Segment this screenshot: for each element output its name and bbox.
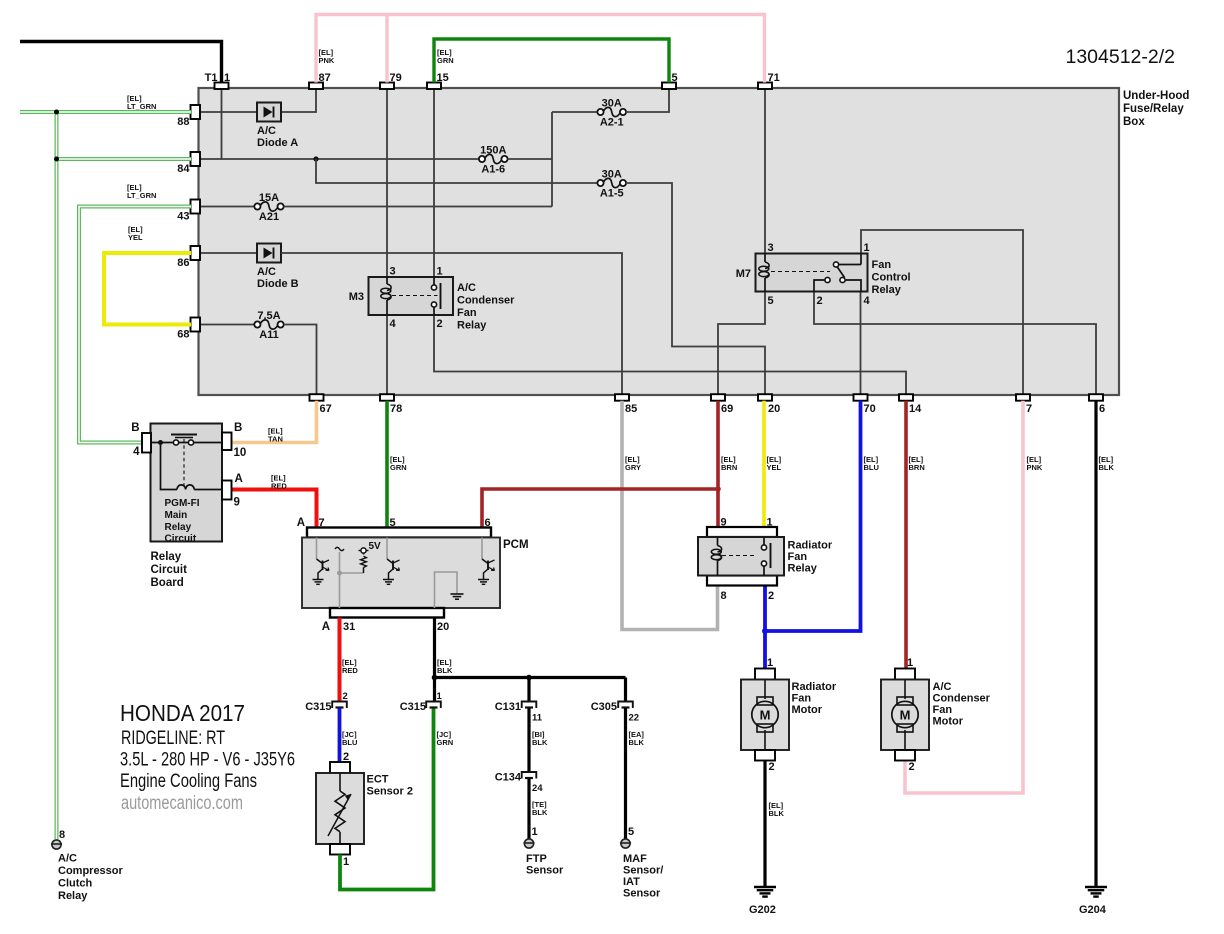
svg-text:BLK: BLK	[629, 738, 645, 747]
wire brown pin 69 to radiator fan relay pin 9	[716, 401, 720, 527]
fuse A2-1 30A	[597, 98, 626, 129]
svg-text:A21: A21	[259, 211, 279, 223]
wire gray pin 85 to radiator fan relay pin 8	[622, 401, 718, 630]
pin 85	[615, 394, 637, 415]
wire pin84 line to fuse A1-6	[199, 158, 481, 160]
wire yellow pin 20 to radiator fan relay pin 1	[762, 401, 766, 527]
svg-text:1: 1	[767, 517, 773, 529]
pin 43	[177, 200, 200, 223]
wire pin15 to M3 pin1	[433, 89, 435, 278]
svg-text:A2-1: A2-1	[600, 117, 624, 129]
svg-text:5: 5	[390, 517, 396, 529]
svg-text:88: 88	[177, 116, 189, 128]
svg-text:LT_GRN: LT_GRN	[127, 191, 156, 200]
label [EL] RED (pin 31)	[342, 658, 358, 675]
label [JC] GRN	[437, 730, 454, 747]
wire junction down to fuse A1-5	[316, 159, 598, 183]
wire riser x552 (A2-1 to A21)	[551, 112, 553, 207]
svg-text:A: A	[235, 473, 243, 485]
svg-text:PNK: PNK	[319, 56, 335, 65]
wire pin68 to fuse A11	[199, 324, 254, 326]
svg-text:15: 15	[437, 72, 449, 84]
wire black C134 to FTP sensor	[527, 779, 530, 840]
wire A11 to pin 67	[284, 325, 317, 395]
svg-text:Sensor: Sensor	[526, 865, 564, 877]
svg-text:A/C: A/C	[933, 681, 952, 693]
svg-text:43: 43	[177, 211, 189, 223]
FTP Sensor terminal	[523, 826, 564, 877]
svg-text:B: B	[131, 422, 139, 434]
svg-text:Circuit: Circuit	[165, 534, 197, 545]
svg-text:Condenser: Condenser	[457, 295, 515, 307]
Radiator Fan Motor	[741, 657, 837, 773]
svg-text:22: 22	[629, 713, 640, 724]
svg-text:A11: A11	[259, 329, 279, 341]
svg-text:Sensor 2: Sensor 2	[367, 786, 413, 798]
svg-text:3.5L - 280 HP - V6 - J35Y6: 3.5L - 280 HP - V6 - J35Y6	[120, 750, 295, 771]
svg-text:Fan: Fan	[933, 704, 953, 716]
svg-text:IAT: IAT	[623, 876, 640, 888]
svg-text:ECT: ECT	[367, 774, 389, 786]
svg-text:87: 87	[319, 72, 331, 84]
svg-text:6: 6	[485, 517, 491, 529]
wire blue pin 70 to radiator fan motor	[765, 401, 861, 669]
wire black pin 6 to G204	[1094, 401, 1097, 887]
wire green ECT to C315 pin 1	[340, 708, 434, 890]
label [EL] GRN	[437, 48, 454, 65]
title block	[120, 700, 295, 814]
svg-text:Relay: Relay	[151, 551, 182, 563]
wire pin71 to M7 pin3	[764, 89, 766, 255]
wire pin86 to diode B	[199, 252, 257, 254]
wire pink 87-79-71	[316, 15, 765, 83]
svg-text:Relay: Relay	[872, 284, 902, 296]
svg-text:BLK: BLK	[1099, 463, 1115, 472]
svg-text:1: 1	[437, 691, 443, 702]
A/C Diode B	[257, 244, 299, 291]
wire M7 pin2 to pin 6	[814, 291, 1096, 395]
wire pin79 to M3 pin3	[386, 89, 388, 278]
pin 20	[758, 394, 780, 415]
svg-text:G202: G202	[749, 904, 776, 916]
pin 78	[380, 394, 402, 415]
svg-text:9: 9	[234, 497, 240, 509]
svg-text:Engine Cooling Fans: Engine Cooling Fans	[120, 771, 257, 792]
svg-text:GRY: GRY	[625, 463, 641, 472]
svg-text:A/C: A/C	[58, 853, 77, 865]
svg-text:150A: 150A	[480, 145, 506, 157]
svg-text:HONDA 2017: HONDA 2017	[120, 700, 245, 726]
svg-text:20: 20	[437, 621, 449, 633]
label [EL] TAN	[268, 427, 283, 444]
svg-text:FTP: FTP	[526, 853, 547, 865]
node junction black at C131	[526, 675, 532, 681]
svg-text:20: 20	[768, 403, 780, 415]
svg-text:3: 3	[768, 242, 774, 254]
label [EL] BLU	[864, 455, 879, 472]
label [JC] BLU	[342, 730, 357, 747]
svg-text:Relay: Relay	[165, 522, 192, 533]
svg-text:M: M	[760, 708, 771, 723]
svg-text:BLK: BLK	[769, 809, 785, 818]
svg-text:A/C: A/C	[257, 266, 276, 278]
pin 7	[1016, 394, 1032, 415]
label [EL] BLK (pin 20)	[437, 658, 453, 675]
svg-text:1304512-2/2: 1304512-2/2	[1065, 46, 1175, 68]
svg-text:M: M	[900, 708, 911, 723]
svg-text:84: 84	[177, 163, 190, 175]
wire M7 pin5 to pin 69	[718, 291, 765, 395]
fuse A21 15A	[254, 192, 283, 223]
svg-text:1: 1	[532, 826, 538, 838]
Under-Hood Fuse/Relay Box	[199, 88, 1190, 395]
ground G202	[749, 887, 776, 916]
svg-text:10: 10	[234, 447, 247, 459]
connector C315 (ECT)	[305, 691, 348, 713]
svg-text:78: 78	[390, 403, 402, 415]
svg-text:86: 86	[177, 257, 189, 269]
svg-text:MAF: MAF	[623, 853, 647, 865]
svg-text:Control: Control	[872, 272, 911, 284]
pin 67	[310, 394, 332, 415]
label [TE] BLK	[532, 800, 548, 817]
A/C Compressor Clutch Relay terminal	[51, 829, 124, 902]
node junction blue	[762, 628, 768, 634]
wire pink pin 7 to A/C condenser fan motor pin 2	[905, 401, 1023, 793]
svg-text:Relay: Relay	[788, 563, 818, 575]
svg-text:Relay: Relay	[457, 320, 487, 332]
wire lt-green vertical to A/C compressor clutch relay	[55, 112, 59, 839]
node junction brown	[715, 486, 721, 492]
svg-text:Sensor/: Sensor/	[623, 865, 663, 877]
svg-text:5V: 5V	[369, 541, 382, 552]
svg-text:Fan: Fan	[457, 307, 477, 319]
svg-text:Diode B: Diode B	[257, 278, 299, 290]
pin 84	[177, 152, 200, 175]
svg-text:C305: C305	[591, 701, 617, 713]
pin 5	[662, 72, 678, 89]
pin 6	[1089, 394, 1105, 415]
svg-text:4: 4	[133, 446, 140, 458]
node junction black at PCM20	[432, 675, 438, 681]
svg-text:automecanico.com: automecanico.com	[121, 793, 243, 814]
svg-text:PGM-FI: PGM-FI	[165, 498, 200, 509]
svg-text:14: 14	[909, 403, 922, 415]
svg-text:BLU: BLU	[342, 738, 357, 747]
wire riser top to fuse A2-1	[552, 111, 598, 113]
connector C131	[495, 701, 543, 724]
svg-text:BRN: BRN	[721, 463, 737, 472]
node junction lt-green at 84 line	[54, 157, 59, 162]
svg-text:RED: RED	[271, 482, 287, 491]
label [BI] BLK	[532, 730, 548, 747]
pin 68	[177, 318, 200, 341]
wire A21 to riser x552	[284, 206, 552, 208]
svg-text:A1-5: A1-5	[600, 188, 624, 200]
wire M3 pin4 to pin 78	[386, 314, 388, 395]
svg-text:LT_GRN: LT_GRN	[127, 102, 156, 111]
svg-text:5: 5	[672, 72, 678, 84]
label [EL] PNK (pin 7)	[1027, 455, 1043, 472]
pin 88	[177, 105, 200, 128]
wire green pin 78 to PCM 5	[385, 401, 389, 528]
wire blue C315 to ECT sensor	[338, 708, 342, 762]
svg-text:A/C: A/C	[457, 282, 476, 294]
svg-text:Radiator: Radiator	[788, 540, 833, 552]
label [EL] RED	[271, 474, 287, 491]
wire black C305 to MAF sensor	[624, 708, 627, 839]
wire red relay board A9 to PCM A7	[231, 490, 317, 529]
svg-text:11: 11	[532, 713, 543, 724]
wire A1-6 to riser x552	[508, 158, 553, 160]
svg-text:B: B	[234, 422, 242, 434]
svg-text:BLK: BLK	[437, 666, 453, 675]
svg-text:A: A	[322, 621, 330, 633]
svg-text:C315: C315	[305, 701, 331, 713]
svg-text:Motor: Motor	[792, 704, 823, 716]
svg-text:M3: M3	[349, 291, 364, 303]
label [EL] PNK	[319, 48, 335, 65]
svg-text:BLK: BLK	[532, 808, 548, 817]
ground G204	[1079, 887, 1107, 916]
node junction 84 line	[313, 156, 318, 161]
svg-text:2: 2	[437, 318, 443, 330]
svg-text:8: 8	[721, 590, 727, 602]
pin T1/1	[205, 72, 230, 89]
svg-text:BLU: BLU	[864, 463, 879, 472]
Relay Circuit Board	[131, 422, 246, 589]
wire battery black to T1	[20, 42, 222, 83]
svg-text:GRN: GRN	[437, 56, 454, 65]
connector C315 (PCM20)	[400, 691, 443, 713]
svg-text:C315: C315	[400, 701, 426, 713]
PCM	[297, 517, 529, 633]
svg-text:6: 6	[1099, 403, 1105, 415]
svg-text:85: 85	[625, 403, 637, 415]
wire black radiator fan motor to G202	[763, 761, 766, 888]
svg-text:Fan: Fan	[872, 259, 892, 271]
wire T1 down to 84 line	[221, 89, 223, 159]
sheet number	[1065, 46, 1175, 68]
wire lt-green pin 43 to relay circuit board	[79, 207, 191, 443]
svg-text:70: 70	[864, 403, 876, 415]
svg-text:9: 9	[721, 517, 727, 529]
svg-text:79: 79	[390, 72, 402, 84]
ECT Sensor 2	[316, 751, 413, 868]
wire pin88 to diode A to pin 87	[199, 89, 316, 112]
fuse A1-5 30A	[597, 169, 626, 200]
svg-text:7: 7	[319, 517, 325, 529]
wire black C131 to C134	[527, 708, 530, 773]
svg-text:1: 1	[437, 266, 443, 278]
svg-text:GRN: GRN	[390, 463, 407, 472]
wire A2-1 to pin 5	[626, 89, 669, 112]
svg-text:5: 5	[768, 295, 774, 307]
svg-text:C134: C134	[495, 772, 522, 784]
Radiator Fan Relay	[698, 517, 833, 603]
svg-text:RIDGELINE: RT: RIDGELINE: RT	[121, 728, 225, 749]
svg-text:T1: T1	[205, 72, 218, 84]
svg-text:Compressor: Compressor	[58, 865, 124, 877]
svg-text:Sensor: Sensor	[623, 888, 661, 900]
label [EL] BRN (pin 14)	[909, 455, 925, 472]
label [EL] BLK (motor)	[769, 801, 785, 818]
svg-text:Under-Hood: Under-Hood	[1123, 90, 1189, 102]
label [EL] YEL (pin 20)	[767, 455, 782, 472]
svg-text:Circuit: Circuit	[151, 564, 188, 576]
wire A1-5 to pin 20	[626, 183, 765, 395]
wire M3 pin2 to pin 14	[434, 314, 906, 395]
svg-text:2: 2	[817, 295, 823, 307]
wire green 15-5	[434, 39, 669, 83]
label [EL] LT_GRN (pin 88)	[127, 94, 156, 111]
svg-text:Condenser: Condenser	[933, 693, 991, 705]
svg-text:Fuse/Relay: Fuse/Relay	[1123, 103, 1184, 115]
svg-text:Relay: Relay	[58, 890, 88, 902]
svg-text:1: 1	[864, 242, 870, 254]
svg-text:Clutch: Clutch	[58, 878, 93, 890]
wire black branch to C131 and C305	[435, 678, 626, 703]
pin 79	[380, 72, 402, 89]
svg-text:Board: Board	[151, 577, 184, 589]
svg-text:5: 5	[628, 826, 634, 838]
wire diode B to pin 85	[281, 253, 622, 395]
relay M3 A/C Condenser Fan Relay	[349, 266, 515, 332]
svg-text:A1-6: A1-6	[481, 164, 505, 176]
svg-text:71: 71	[768, 72, 780, 84]
wire M7 pin4 to pin 70	[860, 291, 862, 395]
svg-text:TAN: TAN	[268, 435, 283, 444]
svg-text:2: 2	[343, 691, 348, 702]
svg-text:31: 31	[343, 621, 355, 633]
svg-text:1: 1	[224, 72, 230, 84]
A/C Condenser Fan Motor	[881, 657, 991, 773]
fuse A11 7.5A	[254, 310, 283, 341]
wire M7 pin1 to pin 7	[861, 230, 1023, 395]
svg-text:2: 2	[768, 590, 774, 602]
pin 15	[427, 72, 449, 89]
svg-text:YEL: YEL	[767, 463, 782, 472]
svg-text:1: 1	[767, 657, 773, 669]
node junction lt-green at 88 line	[54, 110, 59, 115]
svg-text:4: 4	[390, 318, 397, 330]
svg-text:67: 67	[320, 403, 332, 415]
svg-text:C131: C131	[495, 701, 521, 713]
svg-text:Fan: Fan	[792, 693, 812, 705]
svg-text:8: 8	[59, 829, 65, 841]
pin 71	[758, 72, 780, 89]
svg-text:24: 24	[532, 783, 543, 794]
svg-text:2: 2	[769, 761, 775, 773]
svg-text:A: A	[297, 517, 305, 529]
svg-text:BRN: BRN	[909, 463, 925, 472]
svg-text:A/C: A/C	[257, 125, 276, 137]
wire lt-green branch to pin 84	[57, 157, 192, 161]
fuse A1-6 150A	[479, 145, 508, 176]
svg-text:15A: 15A	[259, 192, 279, 204]
wire red PCM 31 to C315	[338, 618, 342, 703]
svg-text:2: 2	[909, 761, 915, 773]
MAF/IAT Sensor terminal	[620, 826, 663, 900]
pin 14	[899, 394, 922, 415]
pin 87	[309, 72, 331, 89]
svg-text:RED: RED	[342, 666, 358, 675]
A/C Diode A	[257, 103, 298, 150]
svg-text:G204: G204	[1079, 904, 1107, 916]
connector C134	[495, 772, 544, 795]
svg-text:68: 68	[177, 329, 189, 341]
relay M7 Fan Control Relay	[736, 242, 911, 307]
label [EA] BLK	[629, 730, 645, 747]
svg-text:4: 4	[864, 295, 871, 307]
wire black PCM 20 down	[433, 618, 436, 703]
svg-text:YEL: YEL	[128, 233, 143, 242]
svg-text:GRN: GRN	[437, 738, 454, 747]
pin 86	[177, 246, 200, 269]
label [EL] BLK (pin 6)	[1099, 455, 1115, 472]
label [EL] LT_GRN (pin 43)	[127, 183, 156, 200]
connector C305	[591, 701, 639, 724]
svg-text:30A: 30A	[602, 169, 622, 181]
svg-text:Box: Box	[1123, 116, 1145, 128]
svg-text:Diode A: Diode A	[257, 137, 298, 149]
svg-text:30A: 30A	[602, 98, 622, 110]
svg-text:Motor: Motor	[933, 716, 964, 728]
svg-text:2: 2	[343, 751, 349, 763]
wire tan pin 67 to relay board pin B10	[231, 401, 317, 443]
svg-text:M7: M7	[736, 268, 751, 280]
svg-text:1: 1	[907, 657, 913, 669]
pin 69	[711, 394, 733, 415]
wire pin43 to fuse A21	[199, 206, 254, 208]
svg-text:Main: Main	[165, 510, 188, 521]
svg-text:3: 3	[390, 266, 396, 278]
wire yellow 86 to 68	[104, 253, 191, 325]
svg-text:PCM: PCM	[503, 539, 529, 551]
svg-text:7.5A: 7.5A	[257, 310, 280, 322]
svg-text:7: 7	[1026, 403, 1032, 415]
label [EL] BRN (pin 69)	[721, 455, 737, 472]
svg-text:1: 1	[343, 856, 349, 868]
pin 70	[854, 394, 876, 415]
label [EL] GRN (pin 78)	[390, 455, 407, 472]
svg-text:PNK: PNK	[1027, 463, 1043, 472]
svg-text:69: 69	[721, 403, 733, 415]
wire lt-green battery feed to pin 88	[20, 110, 191, 114]
svg-text:Fan: Fan	[788, 551, 808, 563]
wire brown PCM pin 6 branch	[482, 489, 718, 528]
label [EL] GRY	[625, 455, 641, 472]
svg-text:BLK: BLK	[532, 738, 548, 747]
wire brown pin 14 to A/C condenser fan motor	[904, 401, 908, 669]
label [EL] YEL	[128, 225, 143, 242]
svg-text:Radiator: Radiator	[792, 681, 837, 693]
